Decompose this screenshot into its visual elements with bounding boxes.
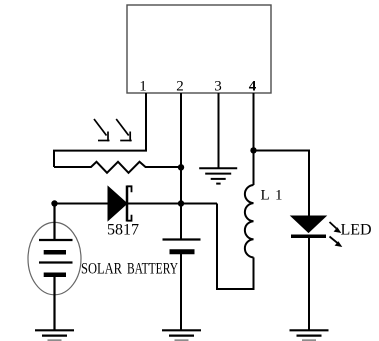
- wire LED to ground: [308, 238, 310, 330]
- ground battery: [35, 330, 74, 340]
- svg-text:1: 1: [139, 79, 147, 95]
- LED light arrow 1: [330, 222, 337, 229]
- svg-text:3: 3: [214, 79, 222, 95]
- light arrow 1: [94, 119, 110, 141]
- junction dot pin4/LED: [250, 147, 256, 153]
- inductor L1: [245, 185, 254, 257]
- ground C1: [162, 330, 201, 340]
- wire C1 bottom: [180, 254, 182, 330]
- photoresistor R1: [54, 162, 181, 173]
- wire pin1 to photoresistor: [54, 93, 146, 167]
- battery plates: [39, 240, 73, 275]
- svg-text:5817: 5817: [107, 222, 139, 239]
- LED light arrow 2: [330, 237, 338, 244]
- svg-text:4: 4: [249, 79, 257, 95]
- junction dot diode/pin2: [178, 200, 184, 206]
- wire battery top: [53, 204, 55, 241]
- solar battery B1 ellipse: [28, 222, 81, 294]
- IC U1 box: [127, 5, 271, 93]
- wire pin4 to LED: [254, 151, 310, 217]
- wire battery bottom: [53, 277, 55, 330]
- junction dot battery node: [51, 200, 57, 206]
- svg-text:LED: LED: [341, 222, 372, 239]
- svg-text:SOLAR: SOLAR: [81, 261, 122, 278]
- capacitor C1 plates: [163, 238, 201, 240]
- junction dot R1/pin2: [178, 164, 184, 170]
- ground LED: [290, 330, 329, 340]
- svg-text:BATTERY: BATTERY: [127, 261, 178, 278]
- wire pin4: [253, 93, 255, 185]
- wire pin3: [218, 93, 220, 168]
- svg-text:2: 2: [176, 79, 184, 95]
- light arrow 2: [116, 119, 132, 141]
- LED D2: [291, 216, 326, 233]
- wire pin2: [180, 93, 182, 240]
- wire diode net: [55, 203, 109, 205]
- ground pin3: [199, 168, 237, 183]
- wire L1 bottom loop: [217, 204, 254, 290]
- diode D1 (schottky 5817): [108, 187, 127, 221]
